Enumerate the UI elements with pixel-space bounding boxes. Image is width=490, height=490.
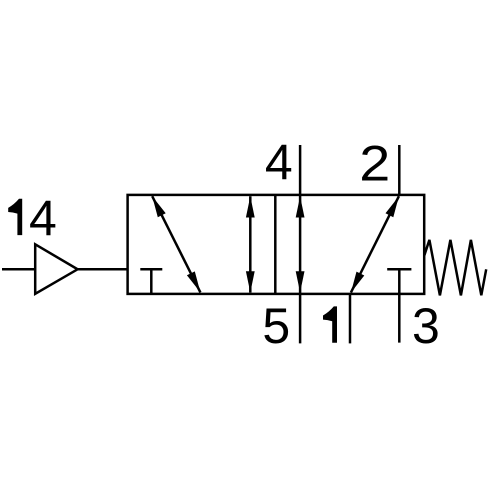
svg-text:3: 3 (412, 298, 440, 354)
label port 2 (359, 135, 390, 191)
valve body outer box (128, 195, 425, 294)
left chamber diagonal flow path 1-4 (152, 196, 200, 292)
left chamber vertical flow path 2-3 (246, 196, 255, 292)
port 1 line (349, 294, 352, 344)
label port 4 (265, 135, 293, 191)
svg-text:4: 4 (265, 135, 293, 191)
svg-text:2: 2 (359, 135, 390, 191)
chamber divider (274, 195, 277, 294)
port 4 line with flow path 4-5 (vertical through line) (296, 145, 305, 343)
label 14 (8, 191, 57, 247)
port 2 line (398, 145, 401, 195)
wire pilot triangle to valve body (78, 268, 128, 271)
pilot line 14 (left lead-in wire) (2, 268, 35, 271)
label port 1 (323, 306, 337, 342)
blocked port 3 (T symbol with port line) (387, 269, 411, 342)
svg-text:4: 4 (29, 191, 57, 247)
label port 3 (412, 298, 440, 354)
right chamber diagonal flow path 1-2 (351, 196, 399, 292)
svg-text:5: 5 (262, 298, 290, 354)
return spring (424, 240, 486, 296)
label port 5 (262, 298, 290, 354)
pilot actuator triangle (35, 244, 77, 293)
left chamber blocked port 5 (T symbol) (140, 269, 162, 294)
